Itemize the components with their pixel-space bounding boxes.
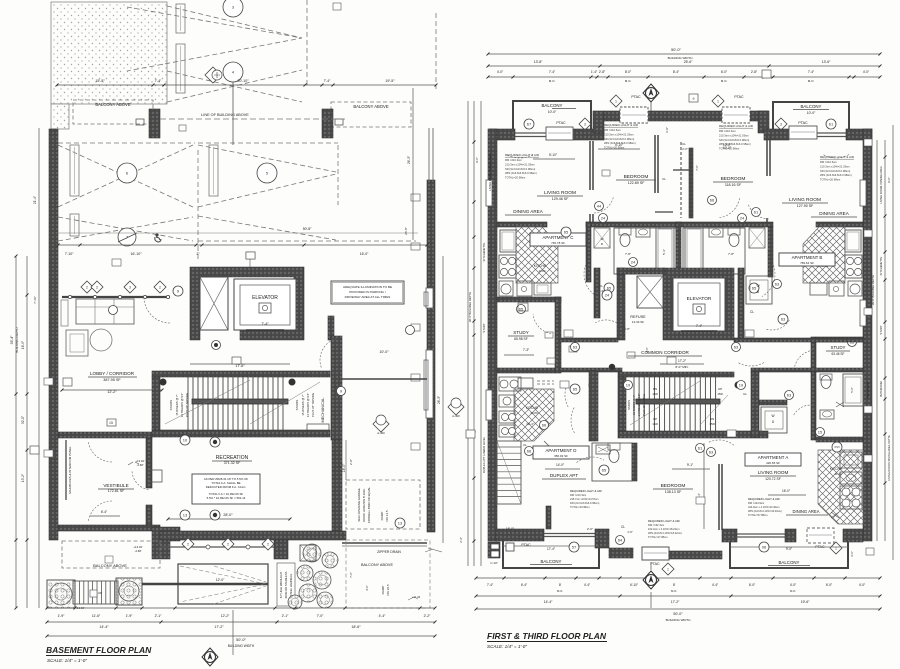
pier bottom center-left — [595, 529, 609, 548]
svg-text:REQUIRED LIGHT & AIR: REQUIRED LIGHT & AIR — [748, 497, 780, 501]
window sill line with glazing tags — [160, 546, 281, 548]
svg-text:LOBBY / CORRIDOR: LOBBY / CORRIDOR — [90, 371, 135, 376]
svg-text:41.79: 41.79 — [835, 472, 842, 476]
APARTMENT A label box — [745, 453, 801, 466]
svg-text:10′-0″: 10′-0″ — [548, 110, 557, 114]
svg-text:2: 2 — [187, 542, 189, 546]
svg-text:11′-6″: 11′-6″ — [92, 614, 101, 618]
svg-text:14 TREADS @ 9.5″: 14 TREADS @ 9.5″ — [306, 393, 310, 417]
svg-text:REQUIRED LIGHT & AIR: REQUIRED LIGHT & AIR — [570, 489, 602, 493]
left dimension strip — [15, 256, 17, 608]
wall right of kitchen D — [589, 371, 598, 441]
svg-text:420.65 SF: 420.65 SF — [766, 461, 780, 465]
svg-text:2′-1″: 2′-1″ — [155, 614, 163, 618]
svg-text:15R: 15R — [652, 392, 658, 396]
sink B — [848, 281, 862, 296]
svg-text:14′-0″: 14′-0″ — [556, 463, 565, 467]
svg-text:KITCHE: KITCHE — [526, 406, 539, 410]
svg-text:SR:(3x3.0x6.8x6.0.98sm): SR:(3x3.0x6.8x6.0.98sm) — [505, 167, 535, 171]
svg-text:16′-9″: 16′-9″ — [21, 340, 25, 349]
svg-text:16′-10″: 16′-10″ — [130, 252, 142, 256]
svg-text:RM =210.3sm: RM =210.3sm — [604, 128, 622, 132]
svg-text:15: 15 — [818, 429, 823, 434]
svg-text:REFUSE: REFUSE — [630, 315, 646, 319]
svg-text:SR:(3x3.0x6.8x6.0.98sm): SR:(3x3.0x6.8x6.0.98sm) — [820, 169, 850, 173]
svg-text:ELEVATOR: ELEVATOR — [252, 295, 278, 301]
mechanical room wall — [331, 336, 342, 440]
svg-text:10′-0″: 10′-0″ — [723, 143, 732, 147]
svg-text:50′-0″: 50′-0″ — [673, 612, 683, 616]
svg-text:42″ HIGH WROUGHT: 42″ HIGH WROUGHT — [279, 571, 283, 598]
stair shaft cell with X — [200, 277, 228, 330]
svg-text:TOTAL=40.98sm: TOTAL=40.98sm — [570, 505, 590, 509]
svg-text:7′-8″: 7′-8″ — [625, 252, 631, 256]
closet wall left of refuse — [594, 268, 600, 318]
svg-text:1′-9″: 1′-9″ — [58, 614, 66, 618]
parking columns / glazing mullions — [176, 4, 185, 33]
svg-text:WIN:(2x6.8x4.10%=43.40sm): WIN:(2x6.8x4.10%=43.40sm) — [748, 509, 782, 513]
svg-text:14′-4″: 14′-4″ — [544, 600, 553, 604]
svg-text:32′-0″: 32′-0″ — [21, 415, 25, 424]
svg-text:210.3sm x10%=21.03sm: 210.3sm x10%=21.03sm — [820, 164, 850, 168]
svg-text:7′-3″: 7′-3″ — [523, 348, 530, 352]
svg-text:43.89: 43.89 — [539, 269, 546, 273]
svg-text:122.89 SF: 122.89 SF — [628, 181, 645, 185]
door swing — [762, 265, 775, 296]
svg-text:12′-0″: 12′-0″ — [216, 578, 225, 582]
svg-text:4′-4″: 4′-4″ — [584, 583, 591, 587]
exterior stair treads — [75, 581, 115, 604]
section marker A-300 — [205, 67, 221, 83]
svg-text:15: 15 — [109, 421, 113, 425]
svg-text:DUPLEX APT: DUPLEX APT — [550, 473, 579, 478]
svg-text:M.O.: M.O. — [721, 79, 728, 83]
svg-text:PLUS 15″ NOSING: PLUS 15″ NOSING — [185, 393, 189, 417]
svg-text:RM =424.9sm: RM =424.9sm — [748, 501, 764, 505]
BALCONY ABOVE dashed rect right — [331, 102, 411, 127]
svg-text:162.2sm x 4.10%=18.22sm: 162.2sm x 4.10%=18.22sm — [648, 527, 680, 531]
study B left wall — [811, 337, 816, 372]
north arrow — [643, 84, 659, 102]
PTAC window bottom center — [642, 547, 669, 560]
bath band top wall — [586, 222, 773, 227]
svg-text:BUILDING WIDTH: BUILDING WIDTH — [666, 618, 691, 622]
svg-text:35′-4″: 35′-4″ — [10, 335, 14, 344]
svg-text:APARTMENT A: APARTMENT A — [758, 455, 789, 460]
door swing balcony B — [823, 155, 849, 158]
svg-text:210.3sm x10%=21.03sm: 210.3sm x10%=21.03sm — [604, 132, 634, 136]
refuse left wall — [617, 268, 625, 340]
svg-text:12′-2″: 12′-2″ — [221, 614, 230, 618]
sofa in lobby — [76, 299, 134, 324]
W/D top wall — [759, 400, 787, 405]
CL wall jog — [546, 506, 551, 529]
svg-text:61: 61 — [829, 121, 834, 126]
svg-text:LIVING ROOM / DINING AREA / KI: LIVING ROOM / DINING AREA / KITTE — [887, 435, 891, 481]
svg-text:7′-0″: 7′-0″ — [695, 165, 699, 171]
svg-text:19′-5″: 19′-5″ — [385, 79, 395, 83]
svg-text:24: 24 — [631, 259, 636, 264]
svg-text:1′-6″: 1′-6″ — [627, 530, 633, 534]
svg-text:KITCHE: KITCHE — [534, 264, 547, 268]
svg-text:BASEMENT FLOOR PLAN: BASEMENT FLOOR PLAN — [46, 645, 152, 655]
svg-text:17′-6″: 17′-6″ — [235, 364, 245, 368]
svg-text:UP: UP — [98, 591, 102, 595]
svg-text:SELF-OPENING GARAGE: SELF-OPENING GARAGE — [357, 488, 361, 522]
svg-text:SCALE: 1/4″ = 1′-0″: SCALE: 1/4″ = 1′-0″ — [487, 644, 527, 649]
svg-text:W: W — [771, 414, 774, 418]
bath C sink/toilet/tub — [614, 228, 676, 274]
svg-text:NSH: NSH — [834, 446, 839, 449]
svg-text:63: 63 — [787, 392, 792, 397]
svg-text:RM =210.3sm: RM =210.3sm — [820, 160, 838, 164]
svg-text:6′-10″: 6′-10″ — [630, 583, 639, 587]
kitchenette C tile floor — [516, 227, 558, 283]
svg-text:16′-0″: 16′-0″ — [782, 489, 791, 493]
study C right wall — [555, 297, 561, 373]
svg-text:1′-10″: 1′-10″ — [490, 561, 498, 565]
kitchen B top wall — [816, 222, 863, 227]
vestibule bottom wall — [58, 525, 160, 531]
svg-text:2: 2 — [96, 285, 98, 289]
svg-text:LINE OF BUILDING ABOVE: LINE OF BUILDING ABOVE — [201, 113, 249, 117]
bathroom B fixtures — [683, 228, 745, 274]
handicap symbol — [155, 233, 161, 242]
svg-text:M.O.: M.O. — [557, 589, 563, 593]
svg-text:4′-0″: 4′-0″ — [497, 70, 504, 74]
svg-text:4′-0″: 4′-0″ — [645, 347, 649, 353]
svg-text:57: 57 — [572, 544, 577, 549]
bathtub B — [685, 226, 703, 272]
bath A bottom wall — [816, 437, 863, 442]
parking space 6 tag — [117, 163, 137, 183]
study B top wall — [816, 337, 863, 342]
svg-text:19: 19 — [626, 382, 631, 387]
svg-text:CL: CL — [750, 310, 754, 314]
pier wall left — [149, 109, 160, 138]
stair left wall — [618, 377, 626, 431]
svg-text:BATHROOM: BATHROOM — [866, 381, 870, 398]
svg-text:17′-2″: 17′-2″ — [671, 600, 680, 604]
svg-text:BALCONY ABOVE: BALCONY ABOVE — [95, 102, 131, 107]
svg-text:6′-0″: 6′-0″ — [721, 70, 728, 74]
svg-text:KITCHENETTE: KITCHENETTE — [879, 256, 883, 275]
svg-text:A-300: A-300 — [377, 431, 385, 435]
svg-text:CORNELL BN60 OR EQUAL: CORNELL BN60 OR EQUAL — [367, 487, 371, 524]
window band under balcony left — [515, 132, 546, 134]
bath divider wall — [676, 222, 681, 277]
study C top wall — [497, 297, 561, 302]
svg-text:4′-4″: 4′-4″ — [712, 583, 719, 587]
svg-text:7′-4″: 7′-4″ — [808, 70, 815, 74]
elevator cab (plan 2) — [673, 278, 725, 331]
svg-text:43.89: 43.89 — [531, 411, 538, 415]
svg-text:TOTAL=57.88sm: TOTAL=57.88sm — [748, 513, 768, 517]
top wall center segment — [604, 111, 768, 121]
stippled paving area top-left — [51, 2, 167, 104]
range B — [845, 255, 862, 278]
svg-text:4′-0″: 4′-0″ — [859, 583, 866, 587]
ramp walls — [178, 564, 268, 604]
recreation east wall — [332, 440, 342, 532]
svg-text:REQUIRED LIGHT & AIR: REQUIRED LIGHT & AIR — [505, 153, 540, 157]
window band under balcony right — [817, 132, 846, 134]
svg-text:17′-4″: 17′-4″ — [547, 547, 556, 551]
svg-text:65: 65 — [564, 229, 569, 234]
glazing opening right wall — [426, 288, 433, 308]
svg-text:24: 24 — [740, 215, 745, 220]
svg-text:PTAC: PTAC — [521, 543, 531, 547]
APARTMENT B label box — [779, 253, 835, 266]
door swing bedroom B — [718, 198, 740, 218]
door swing — [320, 339, 336, 368]
top wall segment B — [573, 129, 604, 140]
svg-text:M.O.: M.O. — [790, 589, 796, 593]
svg-text:15′-5″: 15′-5″ — [95, 79, 105, 83]
right exterior wall — [427, 180, 435, 532]
svg-text:DUPLEX APT LOWER LEVEL: DUPLEX APT LOWER LEVEL — [482, 436, 486, 473]
svg-text:RM =210.3sm: RM =210.3sm — [505, 158, 523, 162]
svg-text:63: 63 — [775, 281, 780, 286]
bedroom A right wall — [718, 464, 720, 530]
svg-text:5′-6″: 5′-6″ — [850, 387, 854, 393]
svg-text:W: W — [601, 237, 604, 241]
ramp center rail — [142, 583, 268, 585]
svg-text:1: 1 — [667, 567, 669, 571]
svg-text:5′-10″: 5′-10″ — [615, 143, 624, 147]
svg-text:8′-0″: 8′-0″ — [625, 70, 632, 74]
svg-text:50′-0″: 50′-0″ — [236, 638, 246, 642]
svg-text:15R: 15R — [709, 422, 715, 426]
svg-text:26′-8″: 26′-8″ — [404, 227, 408, 235]
svg-text:PTAC: PTAC — [650, 562, 660, 566]
door swing — [748, 205, 769, 220]
svg-text:13′-8″: 13′-8″ — [534, 60, 543, 64]
svg-text:7′-4″: 7′-4″ — [696, 324, 703, 328]
wall LR1/BR1 (thin) — [589, 141, 591, 190]
svg-text:DINING AREA: DINING AREA — [513, 209, 544, 214]
svg-text:129.46 SF: 129.46 SF — [552, 197, 569, 201]
range C — [499, 255, 516, 278]
svg-text:DOOR. HORIZON B-1060.: DOOR. HORIZON B-1060. — [362, 488, 366, 522]
svg-text:120.72 SF: 120.72 SF — [765, 477, 781, 481]
svg-text:4′-4″: 4′-4″ — [379, 614, 387, 618]
svg-text:8′: 8′ — [559, 583, 562, 587]
svg-text:2′-0″: 2′-0″ — [682, 147, 688, 151]
svg-text:63.46 SF: 63.46 SF — [832, 352, 845, 356]
PTAC top center-right — [712, 95, 724, 107]
balcony bottom-left — [503, 541, 599, 568]
svg-text:06: 06 — [762, 544, 767, 549]
section marker basement south — [373, 416, 389, 432]
balcony above dashed (bottom left) — [62, 541, 160, 568]
small planter box — [300, 545, 316, 561]
svg-text:PLUS 15″ NOSING: PLUS 15″ NOSING — [311, 393, 315, 417]
svg-text:8′-4″: 8′-4″ — [673, 70, 680, 74]
stair block top wall — [152, 371, 330, 377]
svg-text:DR:(2x3.0x6.8x6.0.98sm): DR:(2x3.0x6.8x6.0.98sm) — [570, 501, 600, 505]
door swing — [132, 470, 149, 490]
svg-text:2′-8″: 2′-8″ — [599, 70, 606, 74]
round table — [90, 329, 112, 351]
svg-text:RAMP: RAMP — [381, 586, 385, 595]
svg-text:BALCONY: BALCONY — [542, 103, 563, 108]
bottom dims (plan 2) — [476, 577, 880, 579]
svg-text:6′-4″: 6′-4″ — [521, 583, 528, 587]
svg-text:3′-6″: 3′-6″ — [850, 551, 854, 557]
stair block left wall — [152, 377, 160, 430]
svg-text:66: 66 — [710, 197, 715, 202]
svg-text:50′-0″: 50′-0″ — [671, 48, 681, 52]
svg-text:BUILDING WIDTH: BUILDING WIDTH — [228, 644, 255, 648]
svg-text:IRON OR STAINLESS: IRON OR STAINLESS — [284, 571, 288, 598]
svg-text:28′-0″: 28′-0″ — [223, 513, 233, 517]
wall at elevator right — [328, 316, 334, 340]
window band right — [737, 533, 785, 535]
balcony bottom-right — [730, 542, 848, 568]
door swing — [709, 440, 735, 446]
svg-text:9′-0″: 9′-0″ — [786, 547, 793, 551]
svg-text:CL: CL — [682, 142, 686, 146]
svg-text:1: 1 — [717, 99, 719, 103]
svg-text:24: 24 — [601, 215, 606, 220]
bath A left wall — [811, 372, 816, 440]
svg-text:1′-4″: 1′-4″ — [591, 70, 598, 74]
svg-text:STUDY: STUDY — [482, 323, 486, 332]
svg-text:7′-0″: 7′-0″ — [317, 614, 325, 618]
svg-text:2: 2 — [86, 285, 88, 289]
window tags right wall — [411, 194, 420, 201]
svg-text:ADEQUATE ILLUMINATION TO BE: ADEQUATE ILLUMINATION TO BE — [343, 285, 392, 289]
parking space 3 tag — [223, 0, 243, 17]
pier bottom right 1 — [722, 529, 737, 542]
left exterior wall (plan 2) — [488, 129, 497, 541]
svg-text:M.O.: M.O. — [549, 79, 556, 83]
corridor bottom wall right — [751, 368, 864, 372]
svg-text:PROVIDED IN PARKING /: PROVIDED IN PARKING / — [349, 290, 386, 294]
svg-text:14 TREADS @ 9.5″: 14 TREADS @ 9.5″ — [180, 393, 184, 417]
corridor top wall left — [560, 338, 618, 342]
svg-text:FIRST & THIRD FLOOR PLAN: FIRST & THIRD FLOOR PLAN — [487, 631, 607, 641]
svg-text:65.98 SF: 65.98 SF — [514, 337, 528, 341]
svg-text:9′-0″: 9′-0″ — [887, 177, 891, 183]
door swing stair hall — [595, 320, 617, 323]
svg-text:KITCHENETTE: KITCHENETTE — [482, 242, 486, 261]
svg-text:17′-2″: 17′-2″ — [214, 625, 224, 629]
W/D closet A — [746, 276, 772, 304]
left exterior wall — [49, 129, 58, 540]
svg-text:21′-4″: 21′-4″ — [33, 195, 37, 204]
right exterior wall (plan 2) — [863, 129, 872, 541]
svg-text:BALCONY ABOVE: BALCONY ABOVE — [353, 104, 389, 109]
svg-text:DRIVEWAY AREA AT ALL TIMES: DRIVEWAY AREA AT ALL TIMES — [345, 295, 391, 299]
svg-text:MECHANICAL: MECHANICAL — [321, 398, 325, 423]
svg-text:7′-10″: 7′-10″ — [65, 252, 74, 256]
svg-text:38′-4″ BUILDING DEPTH: 38′-4″ BUILDING DEPTH — [468, 292, 472, 322]
svg-text:65: 65 — [573, 386, 578, 391]
APARTMENT B label box (over tile) — [779, 253, 835, 266]
svg-text:BEDROOM: BEDROOM — [721, 176, 746, 182]
svg-text:REQUIRED LIGHT & AIR: REQUIRED LIGHT & AIR — [719, 124, 754, 128]
left dimension strip (plan 2) — [467, 101, 469, 566]
svg-text:63: 63 — [709, 449, 714, 454]
svg-text:127.90 SF: 127.90 SF — [797, 204, 814, 208]
door swing — [88, 501, 112, 521]
svg-text:7′-4″: 7′-4″ — [324, 79, 332, 83]
svg-text:17′-2″: 17′-2″ — [678, 359, 687, 363]
svg-text:M.O.: M.O. — [671, 589, 677, 593]
bath D right wall — [632, 443, 637, 481]
svg-text:2′-2″: 2′-2″ — [424, 614, 432, 618]
dishwasher B — [810, 283, 827, 295]
svg-text:CL: CL — [662, 177, 666, 181]
svg-text:25′-6″: 25′-6″ — [684, 60, 693, 64]
svg-text:118.16 SF: 118.16 SF — [725, 183, 742, 187]
duplex stairs — [497, 441, 521, 504]
pier bottom right 2 — [785, 529, 796, 542]
svg-text:66: 66 — [527, 448, 532, 453]
parking space 4 tag — [223, 62, 243, 82]
low wall center 2 — [669, 551, 722, 559]
svg-text:DN 18.5: DN 18.5 — [386, 584, 390, 595]
BALCONY ABOVE dashed rect left — [73, 100, 153, 124]
svg-text:12′-2″: 12′-2″ — [107, 390, 117, 394]
pier bottom right 3 — [843, 529, 863, 542]
svg-text:RAMP: RAMP — [380, 512, 384, 521]
svg-text:UP: UP — [653, 417, 657, 421]
svg-text:8′: 8′ — [673, 583, 676, 587]
step wall at vestibule SE corner — [152, 527, 180, 559]
svg-text:14 TREADS @ 9.5″: 14 TREADS @ 9.5″ — [637, 394, 641, 417]
svg-text:WIN:(3x6.8x6.8x6.0.98sm): WIN:(3x6.8x6.8x6.0.98sm) — [505, 171, 537, 175]
svg-text:LIVING ROOM: LIVING ROOM — [544, 190, 576, 196]
svg-text:STEEL HANDRAIL: STEEL HANDRAIL — [289, 573, 293, 596]
svg-text:7′-4″: 7′-4″ — [487, 583, 494, 587]
svg-text:REQUIRED LIGHT & AIR: REQUIRED LIGHT & AIR — [604, 123, 639, 127]
fridge C — [500, 230, 516, 252]
corridor bottom wall left — [560, 368, 622, 372]
PTAC door right — [807, 528, 834, 543]
svg-text:-2.68′: -2.68′ — [137, 463, 144, 467]
svg-text:3: 3 — [584, 122, 586, 126]
counter unit B — [829, 281, 844, 296]
svg-text:APARTMENT D: APARTMENT D — [546, 448, 577, 453]
svg-text:SCALE: 1/4″ = 1′-0″: SCALE: 1/4″ = 1′-0″ — [47, 658, 87, 663]
lobby storefront window wall — [62, 296, 170, 298]
svg-text:356.93 SF: 356.93 SF — [554, 454, 568, 458]
svg-text:BALCONY ABOVE: BALCONY ABOVE — [361, 563, 393, 567]
dimension line y245 — [58, 232, 418, 234]
svg-text:5.5% * 10,992.06 SF = 562.14: 5.5% * 10,992.06 SF = 562.14 — [207, 496, 246, 500]
section marker between plans — [448, 399, 464, 415]
svg-text:3: 3 — [129, 285, 131, 289]
note box in recreation — [192, 474, 260, 504]
svg-text:138.13 SF: 138.13 SF — [665, 490, 682, 494]
svg-text:2′-4″: 2′-4″ — [459, 537, 463, 543]
svg-text:1′-9″: 1′-9″ — [126, 614, 134, 618]
door swing balcony C — [507, 155, 533, 158]
low wall center 1 — [609, 548, 633, 558]
svg-text:63: 63 — [734, 344, 739, 349]
svg-text:M.O.: M.O. — [625, 79, 632, 83]
svg-text:SR:(3x3.0x6.8x6.0.98sm): SR:(3x3.0x6.8x6.0.98sm) — [604, 137, 634, 141]
svg-text:6′-0″: 6′-0″ — [826, 583, 833, 587]
study C bottom wall — [497, 368, 555, 373]
svg-text:12.33 SF: 12.33 SF — [632, 320, 644, 324]
svg-text:7′-8″: 7′-8″ — [728, 252, 734, 256]
elevator cab — [234, 279, 296, 330]
door swing — [88, 442, 112, 462]
